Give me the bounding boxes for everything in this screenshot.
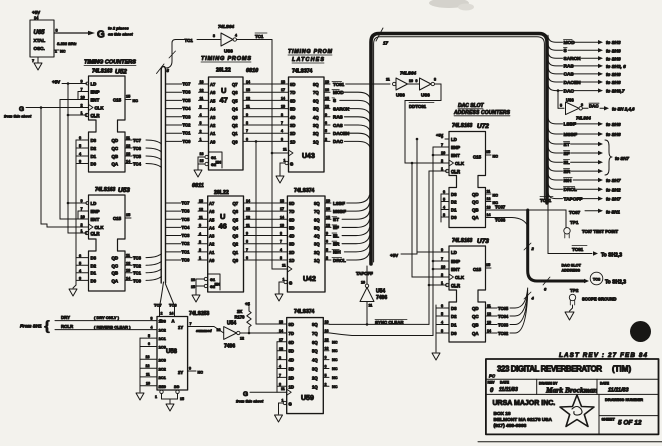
svg-text:0811: 0811 bbox=[192, 183, 204, 189]
svg-text:ENT: ENT bbox=[451, 267, 460, 272]
svg-text:5D: 5D bbox=[289, 349, 294, 354]
svg-text:1: 1 bbox=[283, 278, 285, 282]
svg-text:TC5: TC5 bbox=[133, 154, 142, 159]
svg-text:D3: D3 bbox=[91, 256, 97, 261]
svg-text:U: U bbox=[220, 212, 225, 221]
svg-text:13: 13 bbox=[146, 355, 150, 359]
svg-text:8D: 8D bbox=[289, 322, 294, 327]
svg-text:2D: 2D bbox=[290, 131, 295, 136]
counter U73 (74LS163) bbox=[441, 246, 491, 342]
svg-text:TC1: TC1 bbox=[182, 249, 191, 254]
svg-text:A3: A3 bbox=[210, 115, 216, 120]
svg-text:NC: NC bbox=[332, 349, 338, 353]
node MSBF output bbox=[548, 127, 621, 138]
svg-text:7: 7 bbox=[32, 59, 34, 63]
svg-text:A1: A1 bbox=[209, 250, 215, 255]
svg-text:EF: EF bbox=[564, 151, 570, 157]
svg-text:13: 13 bbox=[487, 205, 491, 209]
label: TIMING COUNTERS bbox=[84, 60, 136, 76]
svg-text:13: 13 bbox=[126, 152, 130, 156]
svg-text:4D: 4D bbox=[290, 115, 295, 120]
svg-text:S: S bbox=[333, 98, 336, 103]
node G (U59 clock) bbox=[236, 391, 287, 404]
svg-text:8Q: 8Q bbox=[313, 82, 319, 87]
svg-text:SYNC CLEAR: SYNC CLEAR bbox=[375, 320, 404, 325]
svg-text:14: 14 bbox=[170, 312, 174, 316]
svg-text:to SH6: to SH6 bbox=[606, 122, 621, 127]
svg-text:12: 12 bbox=[246, 96, 250, 100]
inverter U54a (7406, summed TC) bbox=[188, 321, 277, 350]
wire: DAC slot address bus TC8 bbox=[524, 210, 626, 301]
svg-text:TC85: TC85 bbox=[498, 306, 509, 311]
svg-text:D0: D0 bbox=[91, 162, 97, 167]
svg-text:9: 9 bbox=[81, 199, 83, 203]
svg-text:9: 9 bbox=[325, 356, 327, 360]
wires: U59 outputs (NC) bbox=[323, 320, 337, 389]
svg-text:DAC: DAC bbox=[564, 88, 575, 94]
svg-text:5D: 5D bbox=[289, 225, 294, 230]
wire: TC1bar clock line bbox=[271, 40, 289, 270]
svg-text:13: 13 bbox=[279, 320, 283, 324]
svg-text:10: 10 bbox=[409, 79, 413, 83]
svg-text:TC81: TC81 bbox=[333, 82, 345, 87]
svg-text:LAST REV : 27 FEB 84: LAST REV : 27 FEB 84 bbox=[559, 352, 647, 359]
svg-text:QC: QC bbox=[472, 314, 479, 319]
wires: U43 outputs to bus bbox=[324, 80, 390, 147]
svg-text:A2: A2 bbox=[210, 123, 216, 128]
svg-text:1Q: 1Q bbox=[314, 258, 320, 263]
svg-text:14: 14 bbox=[246, 199, 250, 203]
svg-text:15: 15 bbox=[200, 159, 204, 163]
svg-text:9: 9 bbox=[246, 232, 248, 236]
svg-text:D2: D2 bbox=[451, 200, 457, 205]
svg-text:19: 19 bbox=[325, 80, 329, 84]
wire: summed TC to counter enables bbox=[329, 147, 449, 336]
svg-text:8Q: 8Q bbox=[312, 322, 318, 327]
wires: U58 1C1/1C0 and 2C ladder to ground bbox=[136, 334, 157, 400]
svg-text:C15: C15 bbox=[113, 98, 122, 103]
svg-text:A1: A1 bbox=[210, 131, 216, 136]
node TC81bar to SH2,3 bbox=[540, 197, 622, 259]
svg-text:1: 1 bbox=[441, 167, 443, 171]
svg-text:3D: 3D bbox=[289, 367, 294, 372]
svg-text:13: 13 bbox=[280, 223, 284, 227]
svg-text:TC1: TC1 bbox=[255, 34, 264, 39]
svg-text:D2: D2 bbox=[451, 314, 457, 319]
svg-text:5: 5 bbox=[148, 334, 150, 338]
svg-text:from this sheet: from this sheet bbox=[236, 400, 264, 404]
svg-text:12: 12 bbox=[325, 347, 329, 351]
svg-text:5D: 5D bbox=[290, 107, 295, 112]
svg-text:18: 18 bbox=[279, 347, 283, 351]
ground (U52/U53 D inputs) bbox=[69, 289, 77, 296]
svg-text:U53: U53 bbox=[118, 187, 130, 194]
svg-text:MOD: MOD bbox=[564, 40, 576, 46]
svg-text:2Q: 2Q bbox=[314, 250, 320, 255]
svg-text:U72: U72 bbox=[477, 123, 489, 130]
svg-text:14: 14 bbox=[280, 215, 284, 219]
svg-text:+5V: +5V bbox=[52, 80, 60, 85]
svg-text:Mark Brockman: Mark Brockman bbox=[545, 386, 597, 395]
svg-text:4Q: 4Q bbox=[313, 115, 319, 120]
label: 0811 / 28L22 bbox=[192, 183, 229, 196]
svg-text:ENP: ENP bbox=[451, 145, 460, 150]
svg-text:1D: 1D bbox=[290, 139, 295, 144]
svg-text:2: 2 bbox=[325, 382, 327, 386]
svg-text:to SH7: to SH7 bbox=[615, 156, 629, 161]
svg-text:74LS163: 74LS163 bbox=[92, 69, 113, 75]
svg-text:to SH6: to SH6 bbox=[606, 48, 621, 53]
node DAC output bbox=[548, 84, 625, 95]
svg-text:3Q: 3Q bbox=[312, 367, 318, 372]
svg-text:A6: A6 bbox=[209, 209, 215, 214]
svg-text:D0: D0 bbox=[451, 331, 457, 336]
node EF output bbox=[548, 146, 603, 157]
svg-text:11: 11 bbox=[126, 254, 130, 258]
svg-text:QC: QC bbox=[112, 263, 119, 268]
node ET output bbox=[548, 137, 603, 148]
svg-text:14: 14 bbox=[126, 276, 131, 280]
svg-text:D3: D3 bbox=[451, 306, 457, 311]
svg-text:ADDRESS COUNTERS: ADDRESS COUNTERS bbox=[453, 110, 511, 116]
svg-text:R170: R170 bbox=[235, 315, 246, 320]
svg-text:NC: NC bbox=[493, 155, 499, 159]
svg-text:13: 13 bbox=[487, 321, 491, 325]
logo: star bbox=[560, 395, 594, 427]
svg-text:Q3: Q3 bbox=[233, 234, 239, 239]
svg-text:2: 2 bbox=[441, 159, 443, 163]
svg-text:7: 7 bbox=[280, 240, 282, 244]
svg-text:7Q: 7Q bbox=[313, 90, 319, 95]
svg-text:9: 9 bbox=[416, 79, 418, 83]
svg-text:NC: NC bbox=[493, 194, 499, 198]
svg-text:U54: U54 bbox=[376, 289, 385, 295]
svg-text:2G: 2G bbox=[174, 384, 179, 389]
svg-text:TC84: TC84 bbox=[498, 314, 509, 319]
svg-text:7: 7 bbox=[279, 374, 281, 378]
svg-text:SHEET: SHEET bbox=[602, 417, 616, 422]
svg-text:74LS163: 74LS163 bbox=[452, 123, 473, 129]
svg-text:NC: NC bbox=[332, 358, 338, 362]
svg-text:1C3: 1C3 bbox=[159, 319, 167, 324]
svg-text:74LS374: 74LS374 bbox=[294, 188, 315, 194]
svg-text:12: 12 bbox=[126, 261, 130, 265]
PROM U46 (28L22 "0811") bbox=[208, 196, 244, 292]
svg-text:3: 3 bbox=[279, 356, 281, 360]
svg-text:28L22: 28L22 bbox=[214, 190, 229, 196]
svg-text:12: 12 bbox=[487, 197, 491, 201]
svg-text:7: 7 bbox=[190, 322, 192, 326]
svg-text:74LS04: 74LS04 bbox=[576, 116, 591, 121]
svg-text:7406: 7406 bbox=[224, 344, 235, 350]
svg-text:to SH6: to SH6 bbox=[606, 132, 621, 137]
title block frame bbox=[478, 359, 662, 442]
svg-text:5: 5 bbox=[79, 262, 81, 266]
svg-text:11: 11 bbox=[246, 105, 250, 109]
svg-text:Q7: Q7 bbox=[232, 82, 238, 87]
wires: U53 D input ladder bbox=[73, 195, 89, 288]
svg-text:U65: U65 bbox=[34, 30, 46, 36]
svg-text:9: 9 bbox=[441, 248, 443, 252]
svg-text:D1: D1 bbox=[91, 154, 97, 159]
punch hole bbox=[630, 321, 651, 342]
wires: U46 Q outputs to U42 bbox=[244, 199, 288, 260]
node EL output bbox=[548, 155, 603, 166]
svg-text:TC7: TC7 bbox=[183, 82, 192, 87]
node DDTC81 bbox=[405, 84, 441, 109]
inverter U66a (74LS04, TC1) bbox=[166, 24, 238, 68]
inverter U66b pair (74LS04, TC81 -> DDTC81) bbox=[386, 71, 436, 99]
svg-text:15: 15 bbox=[326, 215, 330, 219]
svg-text:TC82: TC82 bbox=[498, 331, 509, 336]
svg-text:12: 12 bbox=[246, 215, 250, 219]
svg-text:74LS374: 74LS374 bbox=[294, 309, 315, 315]
svg-text:ENT: ENT bbox=[91, 217, 100, 222]
svg-text:To SH2,3: To SH2,3 bbox=[601, 253, 622, 259]
svg-text:Q6: Q6 bbox=[233, 209, 239, 214]
latch U42 (74LS374) bbox=[282, 188, 325, 292]
svg-text:NC: NC bbox=[332, 376, 338, 380]
svg-text:16: 16 bbox=[326, 207, 330, 211]
svg-text:12: 12 bbox=[487, 312, 491, 316]
svg-text:6: 6 bbox=[443, 190, 445, 194]
svg-text:18: 18 bbox=[280, 199, 284, 203]
svg-text:1: 1 bbox=[81, 229, 83, 233]
svg-text:15: 15 bbox=[126, 213, 130, 217]
svg-text:TC1: TC1 bbox=[183, 131, 192, 136]
svg-text:SARCK: SARCK bbox=[333, 106, 350, 111]
wire: ENP/ENT bracket U52 bbox=[60, 92, 89, 220]
label: 74LS163 U73 bbox=[452, 238, 489, 245]
svg-text:TC87 TEST POINT: TC87 TEST POINT bbox=[582, 229, 619, 234]
svg-text:8: 8 bbox=[281, 113, 283, 117]
svg-text:6D: 6D bbox=[289, 217, 294, 222]
svg-text:U52: U52 bbox=[115, 69, 127, 76]
svg-text:D0: D0 bbox=[451, 215, 457, 220]
svg-text:NC: NC bbox=[198, 371, 204, 375]
svg-text:DATE: DATE bbox=[600, 381, 610, 385]
svg-text:ISH: ISH bbox=[564, 178, 573, 184]
svg-text:2Q: 2Q bbox=[313, 131, 319, 136]
svg-text:DRCL: DRCL bbox=[564, 187, 577, 193]
svg-text:URSA MAJOR INC.: URSA MAJOR INC. bbox=[493, 400, 556, 407]
svg-text:4: 4 bbox=[280, 248, 282, 252]
label: 74LS163 U53 bbox=[95, 187, 130, 194]
svg-text:U58: U58 bbox=[166, 349, 178, 355]
svg-text:3: 3 bbox=[79, 277, 81, 281]
svg-text:6D: 6D bbox=[290, 98, 295, 103]
svg-text:12: 12 bbox=[146, 364, 150, 368]
svg-text:12: 12 bbox=[240, 337, 244, 341]
node TC87 bbox=[486, 205, 621, 216]
svg-text:4: 4 bbox=[281, 129, 283, 133]
svg-text:11: 11 bbox=[146, 373, 150, 377]
svg-text:9: 9 bbox=[246, 113, 248, 117]
svg-text:7: 7 bbox=[441, 257, 443, 261]
svg-text:6: 6 bbox=[79, 136, 81, 140]
svg-text:ENP: ENP bbox=[451, 259, 460, 264]
svg-text:TIMING PROMS: TIMING PROMS bbox=[201, 56, 251, 62]
svg-text:10: 10 bbox=[361, 281, 365, 285]
svg-text:D3: D3 bbox=[91, 138, 97, 143]
svg-text:from this sheet: from this sheet bbox=[4, 115, 32, 119]
svg-text:4: 4 bbox=[531, 296, 535, 301]
svg-text:TC6: TC6 bbox=[133, 146, 142, 151]
counter U52 (74LS163) bbox=[81, 76, 139, 172]
svg-text:CAS: CAS bbox=[564, 72, 575, 78]
wires: U52 D input ladder bbox=[76, 136, 89, 195]
svg-text:EL: EL bbox=[333, 233, 339, 238]
svg-text:TC2: TC2 bbox=[183, 123, 192, 128]
svg-text:TP1: TP1 bbox=[570, 220, 579, 225]
svg-text:Q5: Q5 bbox=[233, 217, 239, 222]
svg-text:TC5: TC5 bbox=[182, 217, 191, 222]
svg-text:TC81: TC81 bbox=[572, 247, 584, 252]
svg-text:11/11/83: 11/11/83 bbox=[608, 388, 629, 394]
svg-text:TC1: TC1 bbox=[133, 271, 142, 276]
svg-text:14: 14 bbox=[487, 213, 491, 217]
svg-text:To SH2,3: To SH2,3 bbox=[605, 280, 626, 286]
svg-text:Q1: Q1 bbox=[232, 131, 238, 136]
svg-text:TC86: TC86 bbox=[495, 218, 506, 223]
node ISH output bbox=[548, 173, 621, 184]
svg-text:A0: A0 bbox=[209, 258, 215, 263]
node DACEN output bbox=[548, 75, 621, 86]
svg-text:7: 7 bbox=[81, 207, 83, 211]
svg-text:to SH6: to SH6 bbox=[606, 72, 621, 77]
svg-text:D2: D2 bbox=[91, 146, 97, 151]
svg-text:7D: 7D bbox=[289, 331, 294, 336]
svg-text:5: 5 bbox=[325, 129, 327, 133]
svg-text:14: 14 bbox=[246, 80, 250, 84]
wire: 8-bit TC cable bbox=[157, 64, 170, 283]
svg-text:LSBF: LSBF bbox=[333, 201, 345, 206]
svg-text:3Q: 3Q bbox=[313, 123, 319, 128]
svg-text:( REVERB CLEAR ): ( REVERB CLEAR ) bbox=[94, 324, 131, 329]
wire: oscillator output G bbox=[54, 26, 133, 41]
wires: U73 D ladder + ground bbox=[432, 304, 449, 360]
svg-text:2D: 2D bbox=[289, 250, 294, 255]
node ER output bbox=[548, 164, 603, 175]
wires: U72 D ladder bbox=[441, 190, 449, 222]
svg-text:8: 8 bbox=[167, 68, 170, 73]
svg-text:NC: NC bbox=[332, 340, 338, 344]
svg-text:Q3: Q3 bbox=[232, 115, 238, 120]
svg-text:( DRY ONLY ): ( DRY ONLY ) bbox=[94, 315, 120, 320]
svg-text:TC5: TC5 bbox=[183, 98, 192, 103]
test point TP2 scope ground bbox=[565, 288, 616, 320]
svg-text:NC: NC bbox=[133, 99, 139, 103]
svg-text:1C0: 1C0 bbox=[159, 345, 167, 350]
svg-text:4: 4 bbox=[151, 326, 153, 330]
svg-text:TC4: TC4 bbox=[183, 106, 192, 111]
latch U43 (74LS374) bbox=[283, 77, 324, 172]
svg-text:12: 12 bbox=[325, 105, 329, 109]
svg-text:LD: LD bbox=[91, 82, 97, 87]
svg-text:17: 17 bbox=[280, 207, 284, 211]
svg-text:EN: EN bbox=[215, 282, 221, 287]
svg-text:G: G bbox=[289, 402, 292, 407]
svg-text:5 OF 12: 5 OF 12 bbox=[618, 420, 642, 427]
U46 enable pins + ground bbox=[191, 274, 220, 302]
svg-text:U43: U43 bbox=[302, 153, 315, 160]
svg-text:CLR: CLR bbox=[451, 283, 461, 288]
svg-text:1: 1 bbox=[284, 159, 286, 163]
svg-text:ADDRESS: ADDRESS bbox=[562, 269, 581, 273]
wire: 17-signal bus to right edge bbox=[371, 28, 547, 264]
svg-text:QA: QA bbox=[112, 162, 119, 167]
svg-text:1Q: 1Q bbox=[312, 384, 318, 389]
wires: U72 outputs bbox=[486, 190, 499, 206]
svg-text:2: 2 bbox=[81, 223, 83, 227]
svg-text:QC: QC bbox=[472, 200, 479, 205]
svg-text:7Q: 7Q bbox=[314, 209, 320, 214]
node TAPOFF bbox=[356, 271, 373, 276]
svg-text:1: 1 bbox=[441, 281, 443, 285]
svg-text:DAC: DAC bbox=[589, 104, 599, 109]
svg-text:TC3: TC3 bbox=[183, 114, 192, 119]
svg-text:XTAL: XTAL bbox=[34, 38, 46, 43]
svg-text:15: 15 bbox=[325, 338, 329, 342]
svg-text:G: G bbox=[290, 162, 293, 167]
svg-text:to SH 2,4,6: to SH 2,4,6 bbox=[612, 107, 635, 112]
svg-text:11: 11 bbox=[282, 264, 286, 268]
svg-text:6Q: 6Q bbox=[312, 340, 318, 345]
node SYNC CLEAR bbox=[329, 320, 429, 326]
svg-text:Q0: Q0 bbox=[233, 258, 239, 263]
node G (clock input from this sheet) bbox=[4, 106, 89, 227]
wires: U47 Q outputs to U43 bbox=[243, 80, 289, 141]
wires: U73 outputs TC85-TC82 bbox=[486, 288, 528, 336]
svg-text:3D: 3D bbox=[290, 123, 295, 128]
svg-text:6: 6 bbox=[246, 137, 248, 141]
svg-text:+5V: +5V bbox=[32, 10, 40, 15]
svg-text:TC8: TC8 bbox=[593, 277, 601, 282]
wire: sync clear to counter CLR pins bbox=[428, 171, 447, 324]
svg-text:{: { bbox=[44, 319, 50, 335]
svg-text:11/11/83: 11/11/83 bbox=[499, 387, 518, 393]
svg-text:16: 16 bbox=[325, 329, 329, 333]
svg-text:ER: ER bbox=[333, 242, 340, 247]
svg-text:8: 8 bbox=[279, 383, 281, 387]
svg-text:+5: +5 bbox=[245, 302, 250, 307]
svg-text:G: G bbox=[19, 106, 24, 113]
svg-text:74LS253: 74LS253 bbox=[189, 311, 210, 317]
svg-text:9: 9 bbox=[326, 232, 328, 236]
svg-text:2K: 2K bbox=[237, 309, 242, 314]
node S output bbox=[548, 43, 621, 54]
svg-text:CLR: CLR bbox=[451, 169, 461, 174]
svg-text:Q2: Q2 bbox=[232, 123, 238, 128]
svg-text:CLR: CLR bbox=[91, 113, 101, 118]
svg-text:DRAWING NUMBER: DRAWING NUMBER bbox=[605, 397, 643, 402]
svg-text:11: 11 bbox=[246, 223, 250, 227]
svg-text:7Q: 7Q bbox=[312, 331, 318, 336]
wire: ENP/ENT bracket U53 bbox=[60, 211, 89, 219]
svg-text:10: 10 bbox=[146, 382, 150, 386]
node LSBF output bbox=[548, 117, 621, 128]
svg-text:TC6: TC6 bbox=[169, 303, 177, 308]
svg-text:9: 9 bbox=[325, 113, 327, 117]
svg-text:QD: QD bbox=[472, 306, 479, 311]
svg-text:A0: A0 bbox=[210, 139, 216, 144]
svg-text:TC3: TC3 bbox=[182, 233, 191, 238]
svg-text:6D: 6D bbox=[289, 340, 294, 345]
svg-text:1: 1 bbox=[155, 395, 157, 399]
svg-text:QB: QB bbox=[472, 208, 479, 213]
svg-text:4Q: 4Q bbox=[312, 358, 318, 363]
svg-text:74LS04: 74LS04 bbox=[400, 71, 417, 76]
